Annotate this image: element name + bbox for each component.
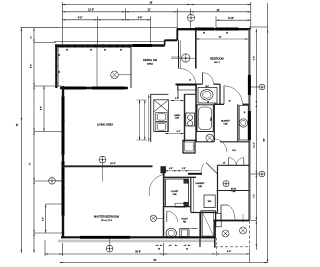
svg-text:DINING RM: DINING RM [143, 58, 157, 62]
patio post tags [222, 230, 229, 237]
right wall tag circles [259, 84, 265, 90]
patio north wall [214, 220, 250, 222]
east wall window segments [248, 75, 251, 95]
window tag circle top [188, 14, 195, 21]
tub east wall [213, 104, 215, 142]
svg-text:TOILET: TOILET [181, 219, 188, 221]
hall cabinet box [183, 140, 195, 153]
svg-text:14: 14 [189, 80, 191, 82]
svg-text:LIVING AREA: LIVING AREA [97, 123, 113, 127]
svg-text:6'0: 6'0 [120, 50, 122, 52]
bottom extensions [44, 240, 46, 256]
patio west wall [214, 221, 216, 248]
washer dryer [204, 195, 215, 208]
powder vanity [239, 106, 248, 141]
passage dim top [171, 100, 185, 102]
porch roof line [54, 40, 166, 42]
closet north wall [164, 176, 196, 178]
svg-text:BEDROOM: BEDROOM [210, 57, 223, 61]
svg-text:6'0: 6'0 [66, 50, 68, 52]
west wall window ticks [61, 96, 65, 98]
laundry door arc [206, 163, 218, 175]
svg-text:6'0: 6'0 [203, 33, 205, 35]
toilet 2 [180, 228, 189, 238]
svg-text:7'-2": 7'-2" [253, 194, 255, 199]
svg-text:#: # [109, 249, 110, 251]
svg-text:15'-4 x 17'-0: 15'-4 x 17'-0 [101, 220, 113, 222]
porch center post line [96, 47, 98, 88]
svg-text:NO. 2: NO. 2 [214, 62, 220, 64]
wc vanity top right [198, 88, 217, 104]
svg-text:#: # [226, 184, 227, 186]
west wall window segments [62, 97, 65, 154]
cabinet column outline [154, 100, 169, 132]
linen cab right [216, 213, 221, 227]
fan tag toilet rm [150, 215, 156, 221]
porch top wall [55, 44, 131, 47]
svg-text:8'-6": 8'-6" [30, 64, 32, 69]
svg-text:6'0: 6'0 [226, 33, 228, 35]
svg-text:#: # [52, 181, 53, 183]
bottom dim row 2 [60, 262, 268, 264]
north wall mid section [165, 39, 178, 41]
svg-text:1'4: 1'4 [31, 36, 33, 38]
linen X box [154, 100, 169, 112]
hall door arc bedroom [180, 69, 196, 85]
ne wall ticks [194, 27, 196, 31]
svg-text:#: # [191, 18, 192, 20]
window tag master wall [49, 178, 56, 185]
svg-text:9'-6": 9'-6" [253, 56, 255, 61]
svg-text:4'-6": 4'-6" [169, 168, 173, 170]
toilet room west wall [163, 207, 165, 239]
svg-text:16'-6": 16'-6" [110, 163, 116, 165]
toilet center [186, 113, 195, 126]
svg-text:2'-6": 2'-6" [175, 98, 179, 100]
stor walls [217, 165, 219, 212]
bottom dim row 1 [45, 253, 249, 255]
tub [197, 105, 213, 132]
left dim col 2 [33, 28, 35, 253]
dining north wall [131, 44, 165, 46]
hall closet wall + double doors [218, 164, 250, 166]
svg-text:2'8: 2'8 [186, 248, 188, 250]
patio dim ext [242, 214, 244, 223]
north wall east with windows [177, 28, 251, 30]
porch inner face lines [58, 47, 131, 49]
kitchen closet wall [178, 40, 180, 68]
toilet bowl [166, 228, 176, 238]
laundry north wall dark [188, 173, 202, 175]
svg-text:3'-0": 3'-0" [182, 168, 186, 170]
svg-text:W.C.: W.C. [206, 86, 210, 88]
master south wall [61, 236, 216, 238]
master top wall [62, 165, 153, 167]
appliance boxes [156, 113, 167, 122]
basin marks [191, 228, 198, 230]
svg-text:4'-2": 4'-2" [177, 131, 181, 133]
wall tag circle [99, 156, 106, 163]
cabinet column west wall [150, 94, 152, 142]
kitchen dim lines [139, 100, 141, 140]
hall door arc south [214, 139, 227, 152]
left roof extension line [21, 27, 59, 29]
fan tag hall [206, 134, 214, 142]
top dim row 2 [62, 11, 251, 13]
svg-text:36': 36' [149, 1, 153, 4]
north wall jog [164, 40, 166, 45]
right dim col 2 [267, 3, 269, 263]
bedroom west wall upper [195, 29, 197, 69]
top dimension extension lines [61, 2, 63, 44]
south wall window ticks [155, 245, 158, 246]
hall dim line [164, 170, 201, 172]
top dim row 1 [62, 4, 251, 6]
bedroom south wall + wc walls [196, 83, 203, 85]
svg-text:MASTER BEDROOM: MASTER BEDROOM [94, 215, 119, 219]
bath south wall [196, 141, 214, 143]
svg-text:6'0: 6'0 [59, 71, 61, 73]
top dim row 3 [62, 19, 150, 21]
bedroom door arc to hall [224, 86, 243, 105]
ceiling fan tag porch [111, 71, 119, 79]
shower [199, 213, 201, 248]
patio door arc [220, 205, 222, 221]
bottom center tag [106, 245, 113, 252]
toilet rm cab boxes [175, 203, 186, 207]
svg-text:6'0: 6'0 [104, 50, 106, 52]
svg-text:AREA: AREA [147, 62, 153, 65]
closet laundry wall [190, 177, 192, 212]
closet cabinet [166, 179, 189, 207]
svg-text:20: 20 [207, 101, 209, 103]
bedroom west wall lower [195, 85, 197, 143]
door tag circle hall [182, 54, 190, 62]
gray sill band bottom [58, 240, 216, 243]
left dim col sub lower [45, 204, 47, 233]
master door arc [149, 175, 164, 197]
svg-text:6'-10": 6'-10" [228, 18, 234, 20]
svg-text:STOR: STOR [231, 188, 237, 190]
main north wall west with windows [60, 87, 128, 89]
north step wall [176, 29, 178, 41]
left dim col 1 overall [20, 28, 22, 253]
porch wall tick marks [56, 44, 58, 48]
svg-text:20: 20 [229, 101, 231, 103]
left dim col sub upper [43, 86, 45, 132]
cabinet column dim line [148, 95, 150, 142]
svg-text:CLOSET: CLOSET [171, 191, 179, 193]
svg-text:8'-0": 8'-0" [227, 251, 232, 253]
wc west wall [184, 94, 186, 142]
svg-text:12'-8": 12'-8" [88, 10, 94, 12]
east wall [248, 29, 250, 220]
patio dashed edges [215, 246, 249, 248]
svg-text:RM: RM [183, 221, 186, 223]
right dim col 1 [255, 29, 257, 250]
right extensions [249, 26, 268, 28]
closet south wall [164, 206, 191, 208]
powder west wall [237, 104, 239, 142]
laundry south wall [191, 212, 218, 214]
svg-text:3'0: 3'0 [158, 248, 160, 250]
svg-text:#: # [262, 87, 263, 89]
svg-text:36'-8": 36'-8" [135, 251, 141, 253]
svg-text:4'-6": 4'-6" [42, 217, 44, 221]
porch left wall [55, 45, 57, 89]
svg-text:3'0: 3'0 [90, 50, 92, 52]
west wall [62, 86, 64, 238]
porch right edge [130, 45, 132, 89]
svg-text:LAUNDRY: LAUNDRY [195, 182, 205, 185]
bedroom interior dim [196, 38, 248, 40]
passage dim bottom [165, 133, 184, 135]
svg-text:6'-6": 6'-6" [78, 18, 83, 20]
svg-text:16: 16 [244, 112, 246, 114]
toilet rm door arc [167, 211, 178, 222]
closet shelf dark bar [176, 83, 197, 85]
dark block closet corner [161, 167, 166, 174]
svg-text:6'-6": 6'-6" [138, 18, 143, 20]
left extension lines [34, 42, 56, 44]
svg-text:8'-6": 8'-6" [41, 106, 43, 110]
svg-text:#: # [262, 174, 263, 176]
svg-text:14'-2": 14'-2" [253, 142, 255, 148]
svg-text:BLANKET: BLANKET [221, 120, 230, 123]
svg-text:#: # [102, 160, 103, 162]
eave line upper [58, 27, 177, 29]
wc door arc [203, 73, 214, 84]
wc east wall [219, 84, 221, 104]
closet shelf outline [178, 85, 197, 90]
svg-text:3'0: 3'0 [59, 54, 61, 56]
master east wall [163, 173, 165, 207]
stor label + tag [223, 181, 229, 187]
bedroom south wall east part [214, 103, 224, 105]
